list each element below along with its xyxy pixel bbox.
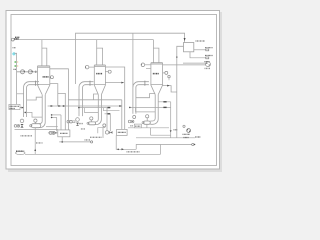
instrument dots (green/orange) on feed line xyxy=(14,61,19,69)
long mid lines xyxy=(48,105,122,107)
steam trap T2 circles xyxy=(67,120,70,123)
wire: steam drop into vessel V3 neck xyxy=(153,40,159,63)
pipes: effect-1 circulation (elbow pipes) xyxy=(24,81,46,128)
wires: inter-effect transfer and vapor lines xyxy=(27,46,184,138)
wire: feed stub into pipe xyxy=(17,93,24,95)
wires: bottom-right outlet line network xyxy=(25,124,195,154)
node: feed source marker (cyan) with feed line xyxy=(12,48,17,105)
steam trap T1 circles xyxy=(14,125,17,128)
cone downpipe + elbow into pump xyxy=(39,95,42,124)
pump P2 xyxy=(88,122,95,125)
valve pair beside tank TK1 xyxy=(46,114,61,134)
wire: steam drop into vessel V1 neck xyxy=(42,40,47,66)
wire: vapor bus y33 to condenser xyxy=(76,33,185,84)
vessel V1 (effect-1 evaporator with cone) xyxy=(37,66,53,95)
condenser E1 box with outlet labels xyxy=(184,38,213,59)
label: pump P2 text xyxy=(79,123,83,125)
wire: jog and cross lines effect-2 xyxy=(79,107,111,109)
drawing frame border xyxy=(11,15,217,166)
valves FV1 FV2 on feed line into vessel V1 xyxy=(17,70,38,74)
label: pump P1 text xyxy=(21,135,33,137)
label: product tank oval xyxy=(15,151,25,154)
wire: steam drop into vessel V2 neck xyxy=(97,40,103,65)
pump P1 xyxy=(31,124,41,128)
instrument circle on pump P1 inlet xyxy=(34,119,37,122)
paper shadow xyxy=(8,12,222,172)
drain valve DV1 below effect-1 pipe xyxy=(20,119,24,123)
node: raw steam inlet S1 with label xyxy=(11,37,19,41)
left pipe (vapor in) xyxy=(24,82,39,117)
wire: live steam bus y39.6 xyxy=(14,39,153,41)
paper sheet xyxy=(6,11,220,170)
wire: condensate header segments xyxy=(15,128,170,134)
pipes: effect-3 circulation (elbow pipes) xyxy=(133,81,158,125)
tank TK1 (condensate) with outlet line xyxy=(58,115,93,143)
wire: jog line effect-1 xyxy=(25,112,42,117)
pump P3 xyxy=(144,121,151,124)
label box: effect-3 outlet xyxy=(134,124,141,128)
wire: cross lines effect-3 xyxy=(130,106,171,108)
steam trap T3 circles xyxy=(128,120,131,123)
vacuum pump VP1 cluster with labels xyxy=(183,125,191,137)
vessel V2 (effect-2 evaporator with cone) xyxy=(85,65,111,95)
tank TK2 with valve and instrument xyxy=(103,124,127,138)
label box: feed stream with arrow xyxy=(9,104,24,109)
pipes: effect-2 circulation (elbow pipes) xyxy=(79,81,101,125)
wire: vapor drop to effect-3 heater xyxy=(132,33,134,87)
vessel V3 (effect-3 evaporator with cone) xyxy=(141,63,168,95)
wire: vacuum double line to ejector xyxy=(163,63,206,65)
